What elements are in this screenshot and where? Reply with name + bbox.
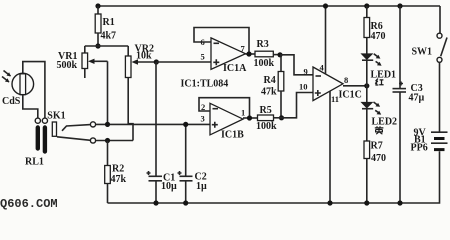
battery B1 9V PP6: [411, 62, 448, 203]
svg-text:47µ: 47µ: [409, 93, 425, 104]
svg-text:1µ: 1µ: [196, 181, 207, 192]
capacitor C3 47u: [393, 6, 425, 203]
svg-text:R5: R5: [260, 105, 272, 116]
node R1/VR1/VR2: [85, 43, 128, 48]
node top rail C3: [397, 3, 402, 8]
svg-text:R1: R1: [103, 17, 115, 28]
svg-text:LED2: LED2: [372, 117, 398, 128]
wire A to IC1B pin 3: [95, 123, 210, 125]
svg-text:5: 5: [201, 52, 205, 62]
wire IC1B output: [243, 117, 258, 119]
node R3 / R4 / pin 9: [277, 52, 282, 57]
svg-text:9: 9: [304, 67, 308, 77]
wire CdS bottom to plug pin 1: [23, 95, 38, 118]
wire IC1A output: [246, 53, 256, 55]
resistor R6 470: [364, 6, 386, 54]
op-amp IC1C: [313, 67, 362, 101]
svg-text:500k: 500k: [57, 60, 78, 71]
wire IC1B feedback pin1 to pin2: [199, 98, 250, 118]
svg-text:R4: R4: [264, 75, 276, 86]
svg-text:3: 3: [201, 114, 205, 124]
wire IC1B pin3 node down to C2: [185, 124, 187, 176]
svg-text:IC1C: IC1C: [339, 90, 362, 101]
node top rail pin 4: [323, 3, 328, 8]
svg-text:10: 10: [299, 82, 308, 92]
wire VR2 wiper to IC1A pin 5: [156, 61, 211, 63]
svg-text:IC1B: IC1B: [221, 130, 244, 141]
svg-text:IC1:TL084: IC1:TL084: [181, 79, 229, 90]
svg-text:100k: 100k: [256, 121, 277, 132]
resistor R4 47k: [261, 55, 284, 118]
contact lever B with circle: [57, 137, 96, 143]
wire to IC1C pin 9: [280, 55, 313, 75]
svg-text:1: 1: [241, 108, 245, 118]
wire bottom ground rail: [108, 202, 439, 204]
plug pins RL1 (relay plug): [25, 118, 48, 167]
wire IC1C pin 4 to V+ rail: [325, 6, 327, 74]
LED1 red: [362, 54, 396, 86]
wire IC1A feedback pin7 to pin6: [194, 28, 249, 55]
svg-text:RL1: RL1: [25, 157, 44, 168]
node B: [105, 138, 110, 143]
resistor R1 4k7: [95, 6, 116, 46]
op-amp IC1A: [211, 38, 247, 74]
LED2 yellow: [362, 86, 397, 141]
capacitor C1 10u: [147, 171, 178, 203]
potentiometer VR2 10k: [125, 43, 156, 77]
svg-text:LED1: LED1: [371, 70, 397, 81]
svg-text:47k: 47k: [111, 174, 127, 185]
op-amp IC1B: [210, 103, 244, 140]
node top rail at R1: [95, 3, 100, 8]
svg-text:R7: R7: [371, 141, 383, 152]
node A: [105, 122, 110, 127]
wire top supply rail: [98, 5, 441, 7]
label huang (yellow) hand-drawn glyph: [375, 126, 384, 134]
wire C1 branch down: [155, 62, 157, 176]
svg-text:R3: R3: [257, 39, 269, 50]
node IC1A output: [246, 51, 251, 56]
svg-text:100k: 100k: [254, 58, 275, 69]
node top rail R6: [364, 3, 369, 8]
svg-text:PP6: PP6: [411, 143, 428, 154]
resistor R7 470: [364, 141, 386, 204]
node VR2 wiper / C1 branch: [154, 59, 159, 64]
potentiometer VR1 500k: [57, 46, 108, 78]
svg-text:4: 4: [320, 63, 325, 73]
node IC1B output: [247, 115, 252, 120]
svg-text:470: 470: [371, 31, 386, 42]
node R4 / R5 / pin 10: [279, 115, 284, 120]
node LED junction: [364, 83, 369, 88]
photoresistor CdS: [2, 71, 34, 108]
label hong (red) hand-drawn glyph: [375, 79, 383, 85]
wire B: [95, 140, 133, 142]
svg-text:Q606.COM: Q606.COM: [0, 197, 58, 211]
switch SW1: [412, 6, 448, 62]
node bottom rail C1: [153, 200, 158, 205]
wire to IC1C pin 10: [282, 93, 314, 118]
node bottom rail pin 11: [327, 200, 332, 205]
svg-text:470: 470: [371, 153, 386, 164]
svg-text:IC1A: IC1A: [223, 63, 247, 74]
wire VR1 wiper down to node A: [107, 61, 109, 124]
node bottom rail C2: [183, 200, 188, 205]
contact lever A with circle: [62, 122, 96, 131]
wire CdS top to plug pin 2: [23, 62, 45, 118]
wire VR2 bottom to wire B: [128, 78, 133, 141]
capacitor C2 1u: [178, 171, 208, 203]
svg-text:R2: R2: [112, 164, 124, 175]
resistor R5 100k: [256, 105, 282, 132]
svg-text:7: 7: [241, 44, 246, 54]
svg-text:SW1: SW1: [412, 47, 433, 58]
svg-text:10k: 10k: [136, 51, 152, 62]
wire IC1C output: [343, 85, 367, 87]
resistor R3 100k: [254, 39, 281, 69]
socket SK1: [47, 111, 65, 137]
node bottom rail R7: [364, 200, 369, 205]
node IC1B pin 3: [183, 122, 188, 127]
svg-text:47k: 47k: [261, 87, 277, 98]
svg-text:SK1: SK1: [47, 111, 65, 122]
node bottom rail C3: [397, 200, 402, 205]
resistor R2 47k: [105, 141, 127, 204]
wire IC1C pin 11 to ground rail: [329, 91, 331, 203]
svg-text:10µ: 10µ: [161, 181, 177, 192]
svg-text:4k7: 4k7: [101, 31, 117, 42]
svg-text:11: 11: [331, 94, 339, 104]
svg-text:8: 8: [344, 75, 348, 85]
svg-text:CdS: CdS: [2, 96, 21, 107]
